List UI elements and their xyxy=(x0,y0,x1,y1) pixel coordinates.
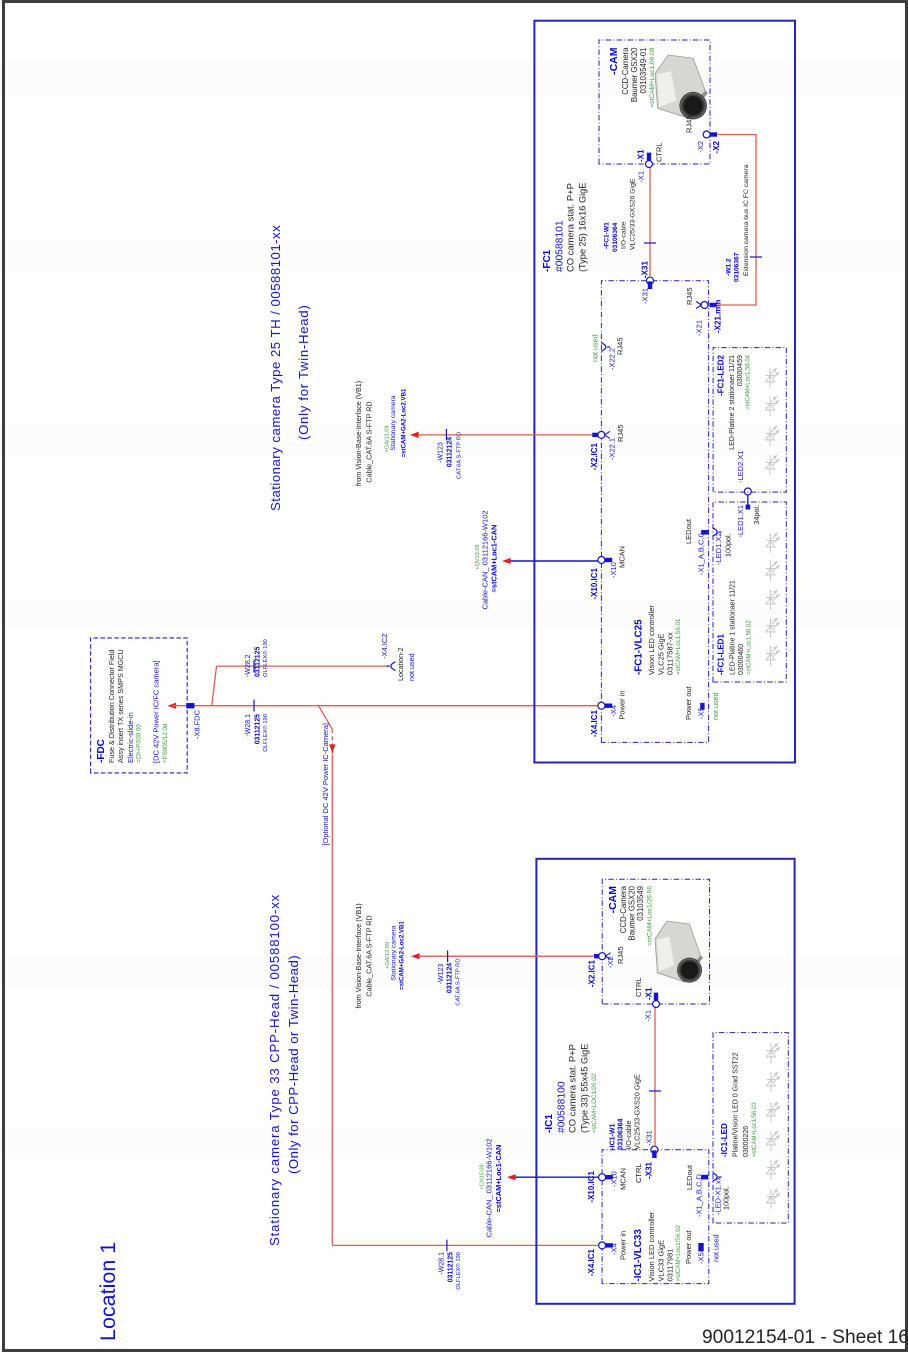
cable tick W28.2 xyxy=(253,661,255,673)
cable tick W28.1 top xyxy=(253,700,255,712)
LED D4 of LED2 xyxy=(766,368,779,388)
LED D2 of IC1-LED xyxy=(767,1160,780,1180)
LED D3 of LED2 xyxy=(766,396,779,416)
FC1 section enclosure xyxy=(534,21,795,763)
wire optional power vertical to X4.IC1 IC1 xyxy=(332,1244,599,1246)
wire optional power horizontal xyxy=(331,755,333,1245)
IC1 section enclosure xyxy=(536,859,794,1304)
connector -X4.IC1 FC1 socket xyxy=(598,702,605,709)
LED D3 of LED1 xyxy=(766,590,779,610)
LED D6 of IC1-LED xyxy=(767,1043,780,1063)
connector -X31 IC1 plug xyxy=(652,1150,656,1158)
LED D1 of LED1 xyxy=(766,646,779,666)
LED D2 of LED2 xyxy=(766,426,779,446)
arrow W123 FC1 xyxy=(410,432,419,438)
cable tick W123 FC1 xyxy=(445,429,447,441)
connector -LED1.X1 plug xyxy=(746,505,751,510)
cable tick W123 IC1 xyxy=(447,951,449,963)
cable tick W28.1 bottom xyxy=(446,1240,448,1252)
wire W123 FC1 from VB1 xyxy=(413,434,592,436)
connector LEDout IC1 plug xyxy=(701,1175,708,1180)
wire CAN FC1 xyxy=(505,560,598,562)
connector -X4 plug FC1 xyxy=(605,704,613,708)
vision LED controller box -FC1-VLC25 xyxy=(601,281,708,743)
wire CAN IC1 xyxy=(510,1176,599,1178)
connector -LED-X1.xx open socket xyxy=(713,1173,722,1182)
cable tick IC1-W1 xyxy=(649,1090,661,1092)
connector -X10.IC1 FC1 socket xyxy=(598,557,605,564)
connector -X1 CAM IC1 socket xyxy=(653,1001,660,1008)
connector -LED2.X1 socket xyxy=(744,488,751,495)
cable tick W1.2 xyxy=(750,256,762,258)
connector -X21.mm plug xyxy=(710,303,717,307)
arrow into FDC xyxy=(168,703,177,709)
connector Power out -X5 FC1 plug xyxy=(700,703,704,710)
FDC enclosure box -FDC xyxy=(91,638,188,773)
connector -X2 FC1 plug xyxy=(710,132,717,136)
LED D1 of IC1-LED xyxy=(767,1189,780,1209)
connector -X2 FC1 socket xyxy=(703,131,710,138)
connector -X4.IC1 IC1 socket xyxy=(599,1242,606,1249)
LED D2 of LED1 xyxy=(766,618,779,638)
wire optional power dashed segment xyxy=(331,729,333,755)
connector -X4.IC2 open socket xyxy=(387,662,396,671)
LED D5 of LED1 xyxy=(766,533,779,553)
camera photo IC1 xyxy=(655,921,703,983)
wire 42V power main vertical from X8.FDC to X4.IC1 FC1 xyxy=(195,705,599,707)
LED D3 of IC1-LED xyxy=(767,1131,780,1151)
connector Power out -X5 IC1 plug xyxy=(698,1243,703,1252)
cable tick FC1-W1 xyxy=(644,242,656,244)
connector -X10 plug FC1 xyxy=(605,558,613,562)
wire W123 IC1 from VB1 xyxy=(414,955,594,957)
wire branch diagonal to W28.2 xyxy=(212,666,217,706)
wire I/O cable IC1-W1 xyxy=(654,1007,656,1146)
wire I/O cable FC1-W1 xyxy=(649,168,651,278)
connector -X4 plug IC1 xyxy=(605,1243,613,1247)
camera box -CAM FC1 xyxy=(599,40,710,164)
wire branch diagonal to optional power xyxy=(318,705,332,730)
LED board box -IC1-LED xyxy=(713,1033,788,1223)
camera box -CAM IC1 xyxy=(602,879,709,1004)
vision LED controller box -IC1-VLC33 xyxy=(602,1150,709,1284)
connector -X2 CAM socket xyxy=(599,953,606,960)
connector -X8.FDC plug xyxy=(186,703,194,708)
LED board box -FC1-LED2 xyxy=(713,348,786,493)
connector -X1 CAM IC1 plug xyxy=(654,993,658,1001)
LED D4 of IC1-LED xyxy=(767,1102,780,1122)
LED board box -FC1-LED1 xyxy=(713,502,786,682)
wire W28.2 vertical to X4.IC2 xyxy=(217,665,388,667)
connector -X2.IC1 FC1 plug xyxy=(592,433,600,437)
LED D1 of LED2 xyxy=(766,455,779,475)
connector -X1 FC1 plug xyxy=(647,153,651,161)
wire LED1.X1 to LED2.X1 xyxy=(747,495,749,505)
wire W1.2 extension camera bus xyxy=(717,135,757,306)
connector -LED1.X2 open socket xyxy=(713,528,722,537)
connector -X22.1 socket xyxy=(598,431,605,438)
LED D4 of LED1 xyxy=(766,561,779,581)
connector -X31 FC1 plug xyxy=(648,281,652,289)
connector -X31 IC1 socket xyxy=(651,1146,658,1153)
connector -X31 FC1 socket xyxy=(647,277,654,284)
arrow CAN IC1 xyxy=(507,1174,516,1180)
camera photo FC1 xyxy=(655,55,708,119)
arrow CAN FC1 xyxy=(502,558,511,564)
arrow optional power xyxy=(329,744,335,753)
connector -X2.IC1 CAM plug xyxy=(594,954,602,958)
connector -X10.IC1 IC1 socket xyxy=(599,1174,606,1181)
arrow W123 IC1 xyxy=(411,953,420,959)
connector RJ45 -X21 socket xyxy=(701,302,708,309)
connector -X22.2 open socket xyxy=(601,343,610,352)
connector -X1 FC1 socket xyxy=(646,161,653,168)
connector LEDout FC1 plug xyxy=(701,530,708,535)
connector -X10 plug IC1 xyxy=(605,1175,613,1179)
LED D5 of IC1-LED xyxy=(767,1072,780,1092)
